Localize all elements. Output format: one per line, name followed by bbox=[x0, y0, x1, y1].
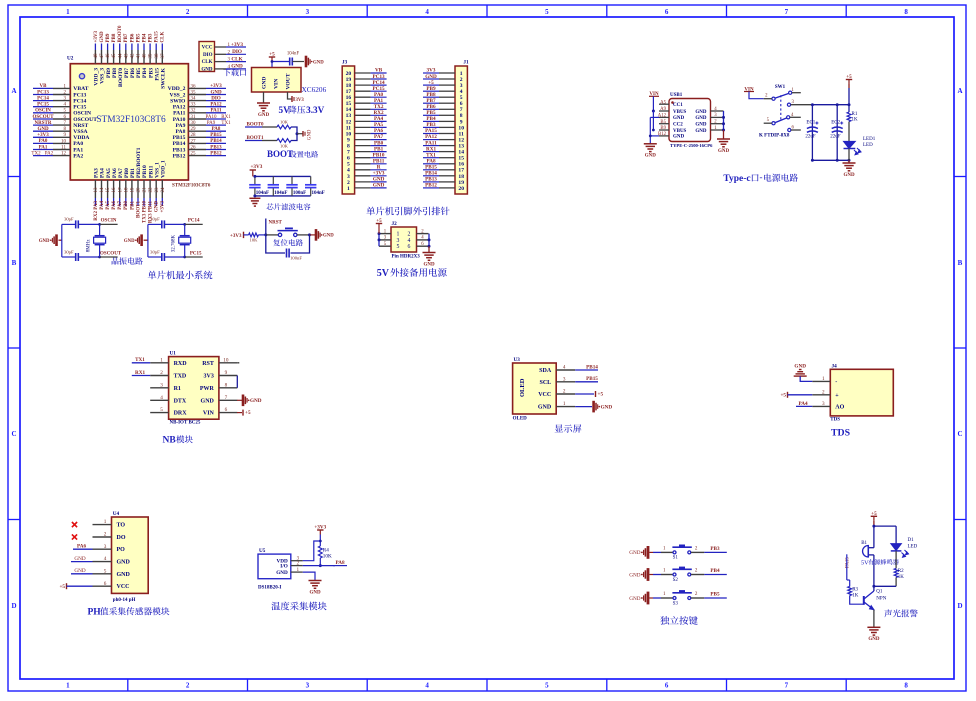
svg-text:6: 6 bbox=[347, 156, 350, 162]
svg-text:PA10: PA10 bbox=[173, 117, 186, 123]
svg-text:U1: U1 bbox=[170, 351, 177, 357]
svg-text:9: 9 bbox=[225, 370, 228, 376]
svg-text:47: 47 bbox=[100, 53, 105, 59]
svg-text:BOOT0: BOOT0 bbox=[118, 25, 123, 42]
svg-text:3: 3 bbox=[306, 8, 310, 16]
svg-text:24: 24 bbox=[161, 187, 166, 193]
svg-text:GND: GND bbox=[250, 398, 262, 404]
svg-text:ph0-14 pH: ph0-14 pH bbox=[113, 598, 136, 603]
svg-text:32.768K: 32.768K bbox=[172, 234, 177, 252]
svg-text:PB3: PB3 bbox=[148, 68, 154, 78]
svg-text:GND: GND bbox=[117, 560, 131, 566]
svg-text:PC15: PC15 bbox=[73, 105, 86, 111]
svg-text:PB8: PB8 bbox=[112, 33, 117, 42]
svg-text:GND: GND bbox=[323, 234, 334, 239]
svg-text:2: 2 bbox=[104, 532, 107, 538]
svg-text:+3V3: +3V3 bbox=[230, 234, 242, 239]
svg-text:10: 10 bbox=[61, 139, 67, 144]
svg-text:PB8: PB8 bbox=[112, 68, 118, 78]
svg-text:2: 2 bbox=[186, 8, 190, 16]
svg-text:4: 4 bbox=[408, 238, 411, 244]
svg-text:4: 4 bbox=[563, 365, 566, 371]
svg-text:R2: R2 bbox=[898, 569, 904, 574]
svg-text:GND: GND bbox=[210, 90, 222, 95]
svg-text:GND: GND bbox=[645, 154, 657, 159]
svg-text:PA4: PA4 bbox=[100, 168, 106, 178]
svg-text:LED: LED bbox=[863, 143, 873, 148]
svg-text:A9: A9 bbox=[660, 107, 666, 112]
svg-text:I/O: I/O bbox=[280, 564, 288, 570]
svg-text:PA6: PA6 bbox=[112, 201, 117, 210]
svg-text:C: C bbox=[957, 430, 962, 438]
svg-text:OLED: OLED bbox=[513, 417, 528, 422]
svg-text:30: 30 bbox=[191, 121, 197, 126]
svg-text:STM32F103C8T6: STM32F103C8T6 bbox=[96, 115, 166, 125]
svg-text:34: 34 bbox=[191, 97, 197, 102]
svg-text:VOUT: VOUT bbox=[286, 73, 292, 89]
svg-text:USB1: USB1 bbox=[670, 93, 683, 98]
svg-text:PB11: PB11 bbox=[148, 165, 154, 178]
svg-text:U2: U2 bbox=[67, 56, 74, 62]
svg-text:GND: GND bbox=[601, 404, 613, 410]
svg-text:3V3: 3V3 bbox=[427, 68, 436, 74]
svg-text:2: 2 bbox=[186, 682, 190, 690]
svg-text:1K: 1K bbox=[852, 118, 859, 123]
svg-text:SWCLK: SWCLK bbox=[161, 67, 167, 88]
svg-text:2: 2 bbox=[160, 370, 163, 376]
svg-text:PA12: PA12 bbox=[425, 134, 437, 140]
svg-text:PA3: PA3 bbox=[94, 168, 100, 178]
svg-text:PA8: PA8 bbox=[426, 158, 436, 164]
svg-text:PB8: PB8 bbox=[426, 92, 436, 98]
svg-text:PA15: PA15 bbox=[155, 31, 160, 43]
svg-text:GND: GND bbox=[37, 127, 49, 132]
svg-text:+3V3: +3V3 bbox=[94, 31, 99, 43]
svg-text:PA11: PA11 bbox=[210, 109, 222, 114]
svg-text:VBUS: VBUS bbox=[673, 110, 687, 115]
svg-text:TX2: TX2 bbox=[31, 151, 41, 156]
svg-text:5: 5 bbox=[104, 568, 107, 574]
svg-text:OSCIN: OSCIN bbox=[101, 219, 117, 224]
svg-text:PB5: PB5 bbox=[426, 110, 436, 116]
svg-text:+5: +5 bbox=[428, 80, 434, 86]
svg-text:PC14: PC14 bbox=[373, 80, 386, 86]
svg-text:1: 1 bbox=[104, 519, 107, 525]
svg-text:R1: R1 bbox=[852, 112, 858, 117]
svg-text:+3V3: +3V3 bbox=[231, 42, 243, 48]
svg-text:104nF: 104nF bbox=[256, 191, 269, 196]
svg-text:GND: GND bbox=[313, 60, 324, 65]
svg-text:J1: J1 bbox=[463, 60, 469, 66]
svg-text:RXD: RXD bbox=[174, 361, 188, 367]
svg-text:1: 1 bbox=[563, 401, 566, 407]
svg-text:PA1: PA1 bbox=[39, 145, 48, 150]
svg-text:J2: J2 bbox=[392, 221, 398, 227]
svg-text:GND: GND bbox=[794, 364, 806, 370]
svg-text:33: 33 bbox=[191, 103, 197, 108]
svg-text:VCC: VCC bbox=[202, 46, 213, 51]
svg-text:Pin HDR2X3: Pin HDR2X3 bbox=[392, 255, 421, 260]
svg-text:BOOT: BOOT bbox=[267, 149, 293, 159]
svg-text:+3V3: +3V3 bbox=[37, 133, 49, 138]
svg-text:2: 2 bbox=[408, 232, 411, 238]
svg-text:XC6206: XC6206 bbox=[302, 85, 327, 94]
svg-text:GND: GND bbox=[629, 550, 640, 556]
svg-text:EC1: EC1 bbox=[806, 121, 815, 126]
svg-text:PB4: PB4 bbox=[142, 33, 147, 42]
svg-text:NRST: NRST bbox=[269, 221, 283, 226]
svg-text:PA0: PA0 bbox=[374, 92, 384, 98]
svg-text:B12: B12 bbox=[658, 132, 667, 137]
svg-text:18: 18 bbox=[124, 187, 129, 193]
svg-text:CLK: CLK bbox=[202, 60, 213, 65]
svg-text:S2: S2 bbox=[673, 578, 679, 583]
svg-text:D1: D1 bbox=[908, 538, 915, 543]
svg-text:PB10: PB10 bbox=[142, 165, 148, 178]
svg-text:NB-IOT BC25: NB-IOT BC25 bbox=[170, 421, 201, 426]
svg-text:PB15: PB15 bbox=[210, 133, 222, 138]
svg-text:6: 6 bbox=[104, 581, 107, 587]
svg-text:13: 13 bbox=[94, 187, 99, 193]
svg-text:GND: GND bbox=[695, 116, 707, 121]
svg-text:PA9: PA9 bbox=[176, 123, 186, 129]
svg-text:17: 17 bbox=[458, 168, 464, 174]
svg-text:8: 8 bbox=[904, 8, 908, 16]
svg-text:1: 1 bbox=[460, 71, 463, 77]
svg-text:GND: GND bbox=[695, 129, 707, 134]
svg-text:RST: RST bbox=[202, 361, 214, 367]
svg-text:PA7: PA7 bbox=[118, 201, 123, 210]
svg-text:+5: +5 bbox=[59, 584, 65, 590]
svg-text:SCL: SCL bbox=[540, 380, 552, 386]
svg-text:14: 14 bbox=[100, 187, 105, 193]
svg-text:GND: GND bbox=[718, 149, 730, 154]
svg-text:40: 40 bbox=[143, 53, 148, 59]
svg-text:PB5: PB5 bbox=[136, 33, 141, 42]
svg-text:16: 16 bbox=[112, 187, 117, 193]
svg-text:1K: 1K bbox=[852, 594, 859, 599]
svg-text:PB15: PB15 bbox=[173, 135, 186, 141]
svg-text:GND: GND bbox=[695, 110, 707, 115]
svg-text:-: - bbox=[835, 379, 837, 385]
svg-text:A: A bbox=[11, 87, 16, 95]
svg-text:8: 8 bbox=[460, 113, 463, 119]
svg-text:11: 11 bbox=[459, 131, 464, 137]
svg-text:CLK: CLK bbox=[161, 32, 166, 43]
svg-text:15: 15 bbox=[458, 156, 464, 162]
svg-text:GND: GND bbox=[868, 637, 880, 642]
svg-text:U5: U5 bbox=[259, 548, 266, 554]
svg-text:7: 7 bbox=[785, 682, 789, 690]
svg-text:3: 3 bbox=[397, 238, 400, 244]
svg-text:PC13: PC13 bbox=[73, 92, 86, 98]
svg-text:3.3V: 3.3V bbox=[306, 105, 324, 115]
svg-text:VSSA: VSSA bbox=[73, 129, 87, 135]
svg-text:100nF: 100nF bbox=[293, 191, 306, 196]
svg-text:PB11: PB11 bbox=[373, 158, 385, 164]
svg-text:VBUS: VBUS bbox=[673, 129, 687, 134]
svg-text:8MHz: 8MHz bbox=[87, 239, 92, 253]
svg-text:3: 3 bbox=[563, 376, 566, 382]
svg-text:PA5: PA5 bbox=[374, 122, 384, 128]
svg-text:PH: PH bbox=[88, 608, 102, 618]
svg-text:PWR: PWR bbox=[200, 386, 215, 392]
svg-text:PB1: PB1 bbox=[130, 168, 136, 178]
svg-text:OSCOUT: OSCOUT bbox=[100, 251, 122, 256]
svg-text:GND: GND bbox=[100, 31, 105, 43]
svg-text:44: 44 bbox=[118, 53, 123, 59]
svg-text:PB14: PB14 bbox=[425, 171, 437, 177]
svg-text:PB15: PB15 bbox=[586, 376, 598, 382]
svg-text:PB13: PB13 bbox=[173, 147, 186, 153]
svg-text:J3: J3 bbox=[342, 60, 348, 66]
svg-text:VB: VB bbox=[375, 68, 383, 74]
svg-text:GND: GND bbox=[201, 68, 213, 73]
svg-text:11: 11 bbox=[346, 125, 351, 131]
svg-text:BOOT1: BOOT1 bbox=[136, 201, 141, 218]
svg-text:6: 6 bbox=[665, 682, 669, 690]
svg-text:PB5: PB5 bbox=[710, 592, 720, 598]
svg-text:TDS: TDS bbox=[831, 428, 851, 439]
svg-text:DIO: DIO bbox=[203, 53, 213, 58]
svg-text:LED: LED bbox=[908, 545, 918, 550]
svg-text:PA11: PA11 bbox=[173, 111, 186, 117]
svg-text:GND: GND bbox=[373, 183, 385, 189]
svg-text:7: 7 bbox=[225, 395, 228, 401]
svg-text:U4: U4 bbox=[113, 511, 120, 517]
svg-text:10: 10 bbox=[223, 357, 229, 363]
svg-text:20: 20 bbox=[137, 187, 142, 193]
svg-text:PB3: PB3 bbox=[149, 33, 154, 42]
svg-text:DRX: DRX bbox=[174, 411, 188, 417]
svg-text:46: 46 bbox=[106, 53, 111, 59]
svg-text:+: + bbox=[835, 393, 839, 399]
svg-text:VIN: VIN bbox=[274, 79, 280, 89]
svg-text:PC15: PC15 bbox=[37, 103, 49, 108]
svg-text:PB12: PB12 bbox=[425, 183, 437, 189]
svg-text:+5: +5 bbox=[245, 410, 251, 416]
svg-text:B: B bbox=[12, 259, 17, 267]
svg-text:10K: 10K bbox=[323, 554, 332, 560]
svg-text:PB4: PB4 bbox=[142, 68, 148, 78]
svg-text:1: 1 bbox=[822, 376, 825, 382]
svg-text:1: 1 bbox=[66, 682, 70, 690]
svg-text:12: 12 bbox=[61, 152, 67, 157]
svg-text:20: 20 bbox=[346, 71, 352, 77]
svg-text:2: 2 bbox=[563, 389, 566, 395]
svg-text:104nF: 104nF bbox=[287, 52, 300, 57]
svg-text:8: 8 bbox=[225, 382, 228, 388]
svg-text:5V: 5V bbox=[279, 105, 291, 115]
svg-text:VSS_2: VSS_2 bbox=[170, 92, 186, 98]
svg-text:DO: DO bbox=[117, 535, 126, 541]
svg-text:R1: R1 bbox=[174, 386, 181, 392]
svg-text:23: 23 bbox=[155, 187, 160, 193]
svg-text:19: 19 bbox=[131, 187, 136, 193]
svg-text:3: 3 bbox=[460, 83, 463, 89]
svg-text:SW1: SW1 bbox=[775, 85, 786, 90]
svg-text:+3V3: +3V3 bbox=[314, 525, 326, 531]
svg-text:3: 3 bbox=[822, 401, 825, 407]
svg-text:PA15: PA15 bbox=[154, 68, 160, 81]
svg-text:PB7: PB7 bbox=[124, 33, 129, 42]
svg-text:AO: AO bbox=[835, 404, 844, 410]
svg-text:+3V3: +3V3 bbox=[250, 164, 262, 170]
svg-text:PB12: PB12 bbox=[173, 153, 186, 159]
svg-text:22: 22 bbox=[149, 187, 154, 193]
svg-text:EC2: EC2 bbox=[831, 121, 840, 126]
svg-text:VSS_1: VSS_1 bbox=[154, 162, 160, 178]
svg-text:VDD_2: VDD_2 bbox=[168, 86, 186, 92]
svg-text:TXD: TXD bbox=[174, 374, 187, 380]
svg-text:NRST: NRST bbox=[73, 123, 88, 129]
svg-text:GND: GND bbox=[695, 123, 707, 128]
svg-text:11: 11 bbox=[61, 145, 66, 150]
svg-text:PB1: PB1 bbox=[374, 146, 384, 152]
svg-text:GND: GND bbox=[673, 116, 685, 121]
svg-text:SWIO: SWIO bbox=[170, 98, 186, 104]
svg-text:BOOT0: BOOT0 bbox=[118, 68, 124, 87]
svg-text:VIN: VIN bbox=[203, 411, 215, 417]
svg-text:GND: GND bbox=[117, 572, 131, 578]
svg-text:30pF: 30pF bbox=[64, 217, 74, 222]
svg-text:+5: +5 bbox=[376, 218, 382, 224]
svg-text:21: 21 bbox=[143, 187, 148, 193]
svg-text:PO: PO bbox=[117, 547, 126, 553]
svg-text:PC14: PC14 bbox=[188, 219, 200, 224]
svg-text:30pF: 30pF bbox=[64, 249, 74, 254]
svg-text:48: 48 bbox=[94, 53, 99, 59]
svg-text:+5: +5 bbox=[269, 52, 275, 58]
svg-text:PB0: PB0 bbox=[124, 168, 130, 178]
svg-text:38: 38 bbox=[155, 53, 160, 59]
svg-text:4: 4 bbox=[425, 8, 429, 16]
svg-text:B: B bbox=[958, 259, 963, 267]
svg-text:PB9: PB9 bbox=[106, 33, 111, 42]
svg-text:PA0: PA0 bbox=[73, 141, 83, 147]
svg-text:GND: GND bbox=[258, 113, 270, 118]
svg-text:PA2: PA2 bbox=[45, 151, 54, 156]
svg-text:A5: A5 bbox=[660, 100, 666, 105]
svg-text:7: 7 bbox=[347, 150, 350, 156]
svg-text:1: 1 bbox=[397, 232, 400, 238]
svg-text:PB3: PB3 bbox=[710, 546, 720, 552]
svg-text:10K: 10K bbox=[280, 120, 289, 125]
svg-text:4: 4 bbox=[160, 395, 163, 401]
svg-text:OSCIN: OSCIN bbox=[35, 109, 51, 114]
svg-text:RX2: RX2 bbox=[374, 110, 384, 116]
svg-text:PA7: PA7 bbox=[374, 134, 384, 140]
svg-text:DIO: DIO bbox=[232, 49, 242, 55]
svg-text:OLED: OLED bbox=[519, 378, 526, 397]
svg-text:29: 29 bbox=[191, 127, 197, 132]
svg-text:PB14: PB14 bbox=[173, 141, 186, 147]
svg-text:VCC: VCC bbox=[117, 584, 130, 590]
svg-text:+5: +5 bbox=[871, 511, 877, 517]
svg-text:D: D bbox=[957, 602, 962, 610]
svg-text:GND: GND bbox=[673, 135, 685, 140]
svg-text:30pF: 30pF bbox=[150, 249, 160, 254]
svg-text:PA4: PA4 bbox=[100, 201, 105, 210]
svg-text:GND: GND bbox=[629, 596, 640, 602]
svg-text:CLK: CLK bbox=[231, 56, 242, 62]
svg-text:104nF: 104nF bbox=[312, 191, 325, 196]
svg-text:1K: 1K bbox=[898, 575, 905, 580]
svg-text:PA8: PA8 bbox=[212, 127, 221, 132]
svg-text:PA12: PA12 bbox=[210, 103, 222, 108]
svg-text:NPN: NPN bbox=[876, 597, 886, 602]
svg-text:PB13: PB13 bbox=[210, 145, 222, 150]
svg-text:VDD_3: VDD_3 bbox=[94, 68, 100, 86]
svg-text:PC15: PC15 bbox=[190, 251, 202, 256]
svg-text:37: 37 bbox=[161, 53, 166, 59]
svg-text:PA10: PA10 bbox=[206, 115, 217, 120]
svg-text:3V3: 3V3 bbox=[204, 374, 214, 380]
svg-text:10: 10 bbox=[458, 125, 464, 131]
svg-text:32: 32 bbox=[191, 109, 197, 114]
svg-text:18: 18 bbox=[346, 83, 352, 89]
svg-text:A12: A12 bbox=[658, 114, 667, 119]
svg-text:41: 41 bbox=[137, 53, 142, 59]
svg-text:PB6: PB6 bbox=[130, 33, 135, 42]
svg-text:5: 5 bbox=[160, 407, 163, 413]
svg-text:TYPE-C-2500-16CP6: TYPE-C-2500-16CP6 bbox=[670, 143, 713, 148]
svg-text:PC13: PC13 bbox=[37, 90, 49, 95]
svg-text:RX1: RX1 bbox=[221, 115, 231, 120]
svg-text:GND: GND bbox=[201, 398, 215, 404]
svg-text:LED1: LED1 bbox=[863, 137, 876, 142]
svg-text:R3: R3 bbox=[852, 588, 858, 593]
svg-text:TX1: TX1 bbox=[221, 121, 231, 126]
svg-text:A: A bbox=[957, 87, 962, 95]
svg-text:3: 3 bbox=[104, 544, 107, 550]
svg-text:DTX: DTX bbox=[174, 398, 187, 404]
svg-text:VSS_3: VSS_3 bbox=[100, 68, 106, 84]
svg-text:25: 25 bbox=[191, 152, 197, 157]
svg-text:16: 16 bbox=[346, 95, 352, 101]
svg-text:5V: 5V bbox=[377, 268, 390, 279]
svg-text:PB4: PB4 bbox=[710, 568, 720, 574]
svg-text:PA5: PA5 bbox=[106, 201, 111, 210]
svg-text:TX3 PB10: TX3 PB10 bbox=[142, 201, 147, 224]
svg-text:+5: +5 bbox=[846, 74, 852, 80]
svg-text:GND: GND bbox=[423, 262, 435, 267]
svg-text:26: 26 bbox=[191, 145, 197, 150]
svg-text:2: 2 bbox=[822, 389, 825, 395]
svg-text:NRSTR: NRSTR bbox=[35, 121, 52, 126]
svg-text:31: 31 bbox=[191, 115, 197, 120]
svg-text:K FTDIP-8X8: K FTDIP-8X8 bbox=[759, 134, 790, 139]
svg-text:PB14: PB14 bbox=[210, 139, 222, 144]
svg-text:OSCOUT: OSCOUT bbox=[73, 117, 97, 123]
svg-text:PB12: PB12 bbox=[210, 151, 222, 156]
svg-text:Q1: Q1 bbox=[876, 590, 883, 595]
svg-text:U3: U3 bbox=[514, 357, 521, 363]
svg-text:-: - bbox=[760, 172, 763, 182]
svg-text:14: 14 bbox=[458, 150, 464, 156]
svg-text:RX1: RX1 bbox=[426, 146, 436, 152]
svg-text:GND: GND bbox=[231, 64, 243, 70]
svg-text:OSCOUT: OSCOUT bbox=[32, 115, 54, 120]
svg-text:GND: GND bbox=[124, 239, 135, 244]
svg-text:S3: S3 bbox=[673, 601, 679, 606]
svg-text:10K: 10K bbox=[250, 237, 259, 242]
svg-text:5V: 5V bbox=[861, 559, 869, 566]
svg-text:35: 35 bbox=[191, 90, 197, 95]
svg-text:1: 1 bbox=[66, 8, 70, 16]
svg-text:GND: GND bbox=[155, 201, 160, 213]
svg-text:+3V3: +3V3 bbox=[210, 84, 222, 89]
